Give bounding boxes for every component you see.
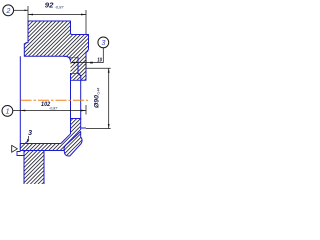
svg-text:3: 3 [102,40,106,47]
svg-text:2: 2 [5,8,10,15]
svg-text:3: 3 [28,130,32,137]
svg-text:Ø90: Ø90 [94,95,101,108]
svg-text:1: 1 [6,109,10,116]
svg-text:92: 92 [45,3,54,10]
svg-text:10: 10 [97,58,102,64]
svg-text:-0,87: -0,87 [49,107,58,111]
svg-text:-0,44: -0,44 [97,88,101,96]
svg-text:-0,87: -0,87 [55,6,65,10]
